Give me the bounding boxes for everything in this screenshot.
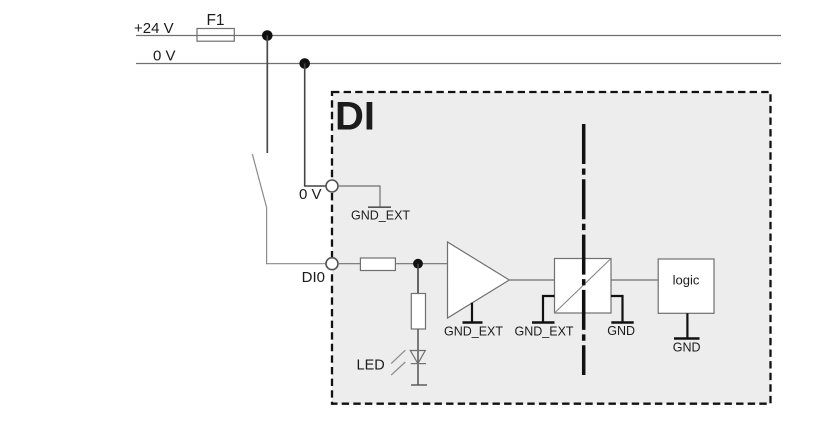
label GND (logic) — [673, 341, 701, 355]
resistor R1 — [360, 258, 395, 271]
label DI — [335, 95, 375, 139]
terminal 0V (circle) — [326, 180, 338, 192]
wire U2 right to GND — [611, 296, 623, 322]
switch S1 (open) — [252, 154, 266, 208]
wire from switch to terminal DI0 — [267, 208, 326, 264]
resistor R2 (LED series) — [411, 294, 425, 330]
svg-text:DI: DI — [335, 95, 375, 139]
node junction on +24V rail — [262, 30, 273, 41]
svg-text:GND_EXT: GND_EXT — [351, 209, 410, 223]
ground GND_EXT (U2 left) — [532, 321, 555, 323]
ground GND (logic) — [674, 337, 700, 339]
ground GND_EXT (terminal 0V) — [368, 206, 391, 208]
optocoupler U2 (isolator box with diagonal) — [555, 259, 612, 314]
DI module box — [332, 92, 771, 404]
wire resistor R1 to amplifier — [395, 263, 447, 265]
wire terminal DI0 to resistor R1 — [338, 263, 360, 265]
label LED — [357, 358, 385, 374]
svg-text:GND: GND — [607, 324, 635, 338]
label GND_EXT (terminal 0V) — [351, 209, 410, 223]
wire U2 to logic — [611, 279, 658, 281]
terminal DI0 (circle) — [326, 258, 338, 270]
svg-text:GND: GND — [673, 341, 701, 355]
wire resistor R2 to LED — [417, 329, 419, 385]
wire from 0V node down to terminal 0V — [305, 64, 326, 187]
wire U2 left to GND_EXT — [543, 296, 555, 322]
LED D1 — [391, 350, 426, 375]
ground GND_EXT under U1 — [463, 303, 483, 323]
logic block U3 — [658, 259, 714, 313]
label logic — [673, 273, 700, 288]
wire 0V rail — [136, 63, 781, 65]
svg-text:0 V: 0 V — [153, 48, 176, 65]
wire from +24V node down to switch — [266, 36, 268, 154]
node junction on 0V rail — [299, 58, 310, 69]
svg-text:GND_EXT: GND_EXT — [444, 325, 503, 339]
label F1 — [206, 12, 224, 29]
svg-text:+24 V: +24 V — [134, 20, 174, 37]
ground GND (U2 right) — [611, 321, 633, 323]
label +24 V — [134, 20, 174, 37]
label DI0 — [302, 269, 325, 286]
svg-text:F1: F1 — [206, 12, 224, 29]
terminal end bar under LED — [411, 384, 427, 386]
label GND_EXT (U1) — [444, 325, 503, 339]
wire logic to GND — [686, 313, 688, 337]
svg-text:DI0: DI0 — [302, 269, 325, 286]
svg-text:LED: LED — [357, 358, 385, 374]
svg-text:GND_EXT: GND_EXT — [515, 325, 574, 339]
label 0 V (terminal) — [299, 186, 322, 203]
fuse F1 — [197, 29, 234, 42]
svg-text:logic: logic — [673, 273, 700, 288]
label 0 V (rail) — [153, 48, 176, 65]
isolation barrier (dash-dot line) — [582, 124, 586, 375]
wire +24V rail — [136, 35, 781, 37]
label GND_EXT (U2) — [515, 325, 574, 339]
op-amp U1 (input buffer triangle) — [448, 242, 510, 318]
svg-text:0 V: 0 V — [299, 186, 322, 203]
label GND (U2) — [607, 324, 635, 338]
wire U1 to isolator U2 — [509, 279, 554, 281]
wire node down to resistor R2 — [417, 264, 419, 294]
wire terminal 0V to GND_EXT — [338, 186, 380, 207]
node junction after R1 — [413, 259, 423, 269]
